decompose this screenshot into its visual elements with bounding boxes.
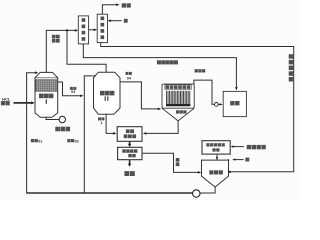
wire dilute acid line — [101, 43, 294, 172]
aging tank — [117, 127, 142, 142]
arrowhead into mixing tank left — [198, 171, 201, 174]
label label vent — [122, 3, 131, 7]
circulation pump — [193, 190, 200, 197]
tail gas purifier 1 — [78, 16, 88, 44]
junction into reactor II top — [94, 75, 96, 77]
wire circulation line 01 — [27, 73, 37, 193]
label label clear liquid — [176, 158, 180, 166]
reactor I packed bed — [36, 79, 57, 91]
wire reactor I drain — [46, 117, 59, 119]
wire settler underflow — [145, 121, 178, 134]
reactor I numeral — [46, 99, 47, 103]
reactor II numeral — [105, 96, 106, 100]
wire reactor-II tail gas — [67, 30, 106, 72]
arrowhead into settler — [158, 108, 161, 111]
label separator text line1 — [122, 149, 137, 153]
label aging tank text line2 — [124, 134, 136, 138]
settler funnel — [162, 108, 194, 121]
svg-text:1: 1 — [100, 121, 102, 125]
arrowhead into storage tank left — [220, 103, 223, 105]
arrowhead water into purifier2 — [108, 19, 111, 22]
label membrane label text — [166, 85, 191, 89]
label label line01 — [31, 139, 38, 142]
wire clear liquid line — [142, 153, 199, 172]
label alkali box text line2 — [212, 148, 219, 151]
membrane label box — [165, 85, 192, 90]
arrowhead into reactor I top — [35, 71, 38, 74]
wire water feed to purifier2 — [109, 20, 121, 22]
alkali prep box — [202, 141, 230, 154]
label label water top — [124, 19, 128, 23]
label settler funnel text — [176, 110, 187, 113]
label label dilute acid pipeline — [289, 54, 294, 81]
storage tank — [223, 91, 246, 116]
wire reactor-I tail gas riser — [46, 30, 76, 72]
reactor II vessel — [94, 72, 121, 114]
svg-text:01: 01 — [38, 140, 42, 144]
svg-text:HCL: HCL — [2, 96, 11, 101]
label discharge pump label — [55, 127, 70, 132]
label label line3 indoor — [195, 69, 206, 72]
mixing tank — [202, 160, 229, 187]
arrowhead into purifier1 — [75, 29, 78, 32]
wire permeate line — [194, 80, 214, 104]
arrowhead into riser 02 — [80, 95, 83, 98]
label alkali box text line1 — [206, 143, 225, 146]
discharge pump — [59, 116, 65, 122]
permeate valve — [214, 103, 218, 107]
label reactor I name — [39, 94, 53, 99]
junction reactor I side outlet — [56, 81, 58, 83]
label purifier2 text — [101, 17, 105, 40]
svg-text:02: 02 — [75, 140, 79, 144]
wire HCl gas feed — [14, 102, 33, 104]
label label conc acid pipeline — [157, 60, 178, 64]
reactor I vessel — [35, 72, 58, 117]
label label line04 — [126, 72, 132, 75]
junction into mixing tank side — [229, 171, 231, 173]
label reactor II name — [100, 91, 114, 96]
tail gas purifier 2 — [97, 14, 107, 42]
arrowhead into separator — [128, 144, 131, 147]
wire circulation bottom line — [26, 192, 193, 194]
junction tail gas junction — [66, 29, 68, 31]
label label solid residue — [124, 171, 134, 176]
solid liquid separator — [118, 147, 142, 159]
wire reactor II drain — [106, 114, 115, 133]
arrowhead water into mixing tank — [232, 158, 235, 160]
wire alkali feed down — [216, 154, 218, 157]
wire aging to separator — [129, 141, 131, 144]
wire water to mixing tank — [234, 159, 244, 161]
label label alkali waste — [247, 145, 266, 149]
wire solid residue out — [129, 160, 131, 164]
junction mixing tank top right joint — [227, 159, 229, 161]
label storage tank text — [230, 101, 239, 105]
arrowhead into aging tank right — [143, 132, 146, 135]
label aging tank text line1 — [126, 129, 134, 133]
wire vent line — [102, 5, 117, 15]
membrane plates — [167, 91, 190, 104]
label purifier1 text — [82, 18, 86, 41]
arrowhead into purifier2 — [94, 29, 97, 32]
wire circulation line 02 — [84, 76, 93, 193]
label label slurry line — [98, 117, 104, 120]
arrowhead solid residue — [128, 164, 131, 167]
membrane bottom band — [166, 104, 190, 107]
wire mixing tank outlet — [200, 187, 215, 193]
label label reaction tail gas r2 — [52, 39, 60, 43]
wire concentrated acid line — [83, 44, 236, 89]
arrowhead to vent — [116, 3, 119, 6]
arrowhead into mixing tank top — [216, 157, 219, 160]
wire purifier1 to purifier2 — [89, 29, 96, 31]
arrowhead into storage tank top — [235, 87, 238, 90]
svg-text:03: 03 — [71, 90, 75, 94]
arrowhead HCl into reactor I — [31, 101, 35, 104]
arrowhead into alkali box — [231, 145, 234, 147]
label mixing tank text — [209, 170, 223, 174]
junction mixing tank top joint — [216, 159, 218, 161]
label label water bottom — [245, 158, 249, 162]
wire overflow line 03 — [57, 82, 82, 96]
label label line02 — [67, 139, 74, 142]
label label reaction tail gas r1 — [52, 35, 60, 39]
svg-text:04: 04 — [127, 77, 131, 81]
wire permeate into tank — [219, 103, 222, 105]
arrowhead into aging tank left — [113, 132, 116, 135]
settler body — [162, 84, 194, 108]
wire reactor II to settler — [118, 82, 159, 109]
label separator text line2 — [128, 154, 135, 158]
wire alkali waste feed — [232, 146, 244, 148]
label label line03 — [70, 87, 76, 90]
label label gas — [1, 101, 10, 105]
